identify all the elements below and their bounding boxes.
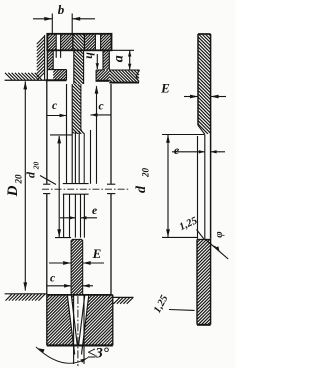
svg-text:20: 20 [32,162,41,171]
svg-text:b: b [58,2,65,17]
svg-text:≤3°: ≤3° [87,346,109,362]
svg-text:c: c [52,100,57,112]
svg-text:c: c [98,101,103,113]
svg-text:E: E [160,81,170,96]
svg-text:h: h [84,52,98,59]
svg-text:e: e [174,143,180,157]
svg-text:a: a [112,55,127,62]
svg-text:d: d [134,185,149,193]
svg-text:20: 20 [141,168,151,179]
svg-text:e: e [92,205,97,217]
svg-text:D: D [5,185,21,197]
svg-text:d: d [24,171,38,178]
svg-text:20: 20 [14,174,24,185]
svg-text:φ: φ [213,231,225,238]
svg-text:c: c [50,273,55,285]
svg-text:E: E [92,246,102,261]
